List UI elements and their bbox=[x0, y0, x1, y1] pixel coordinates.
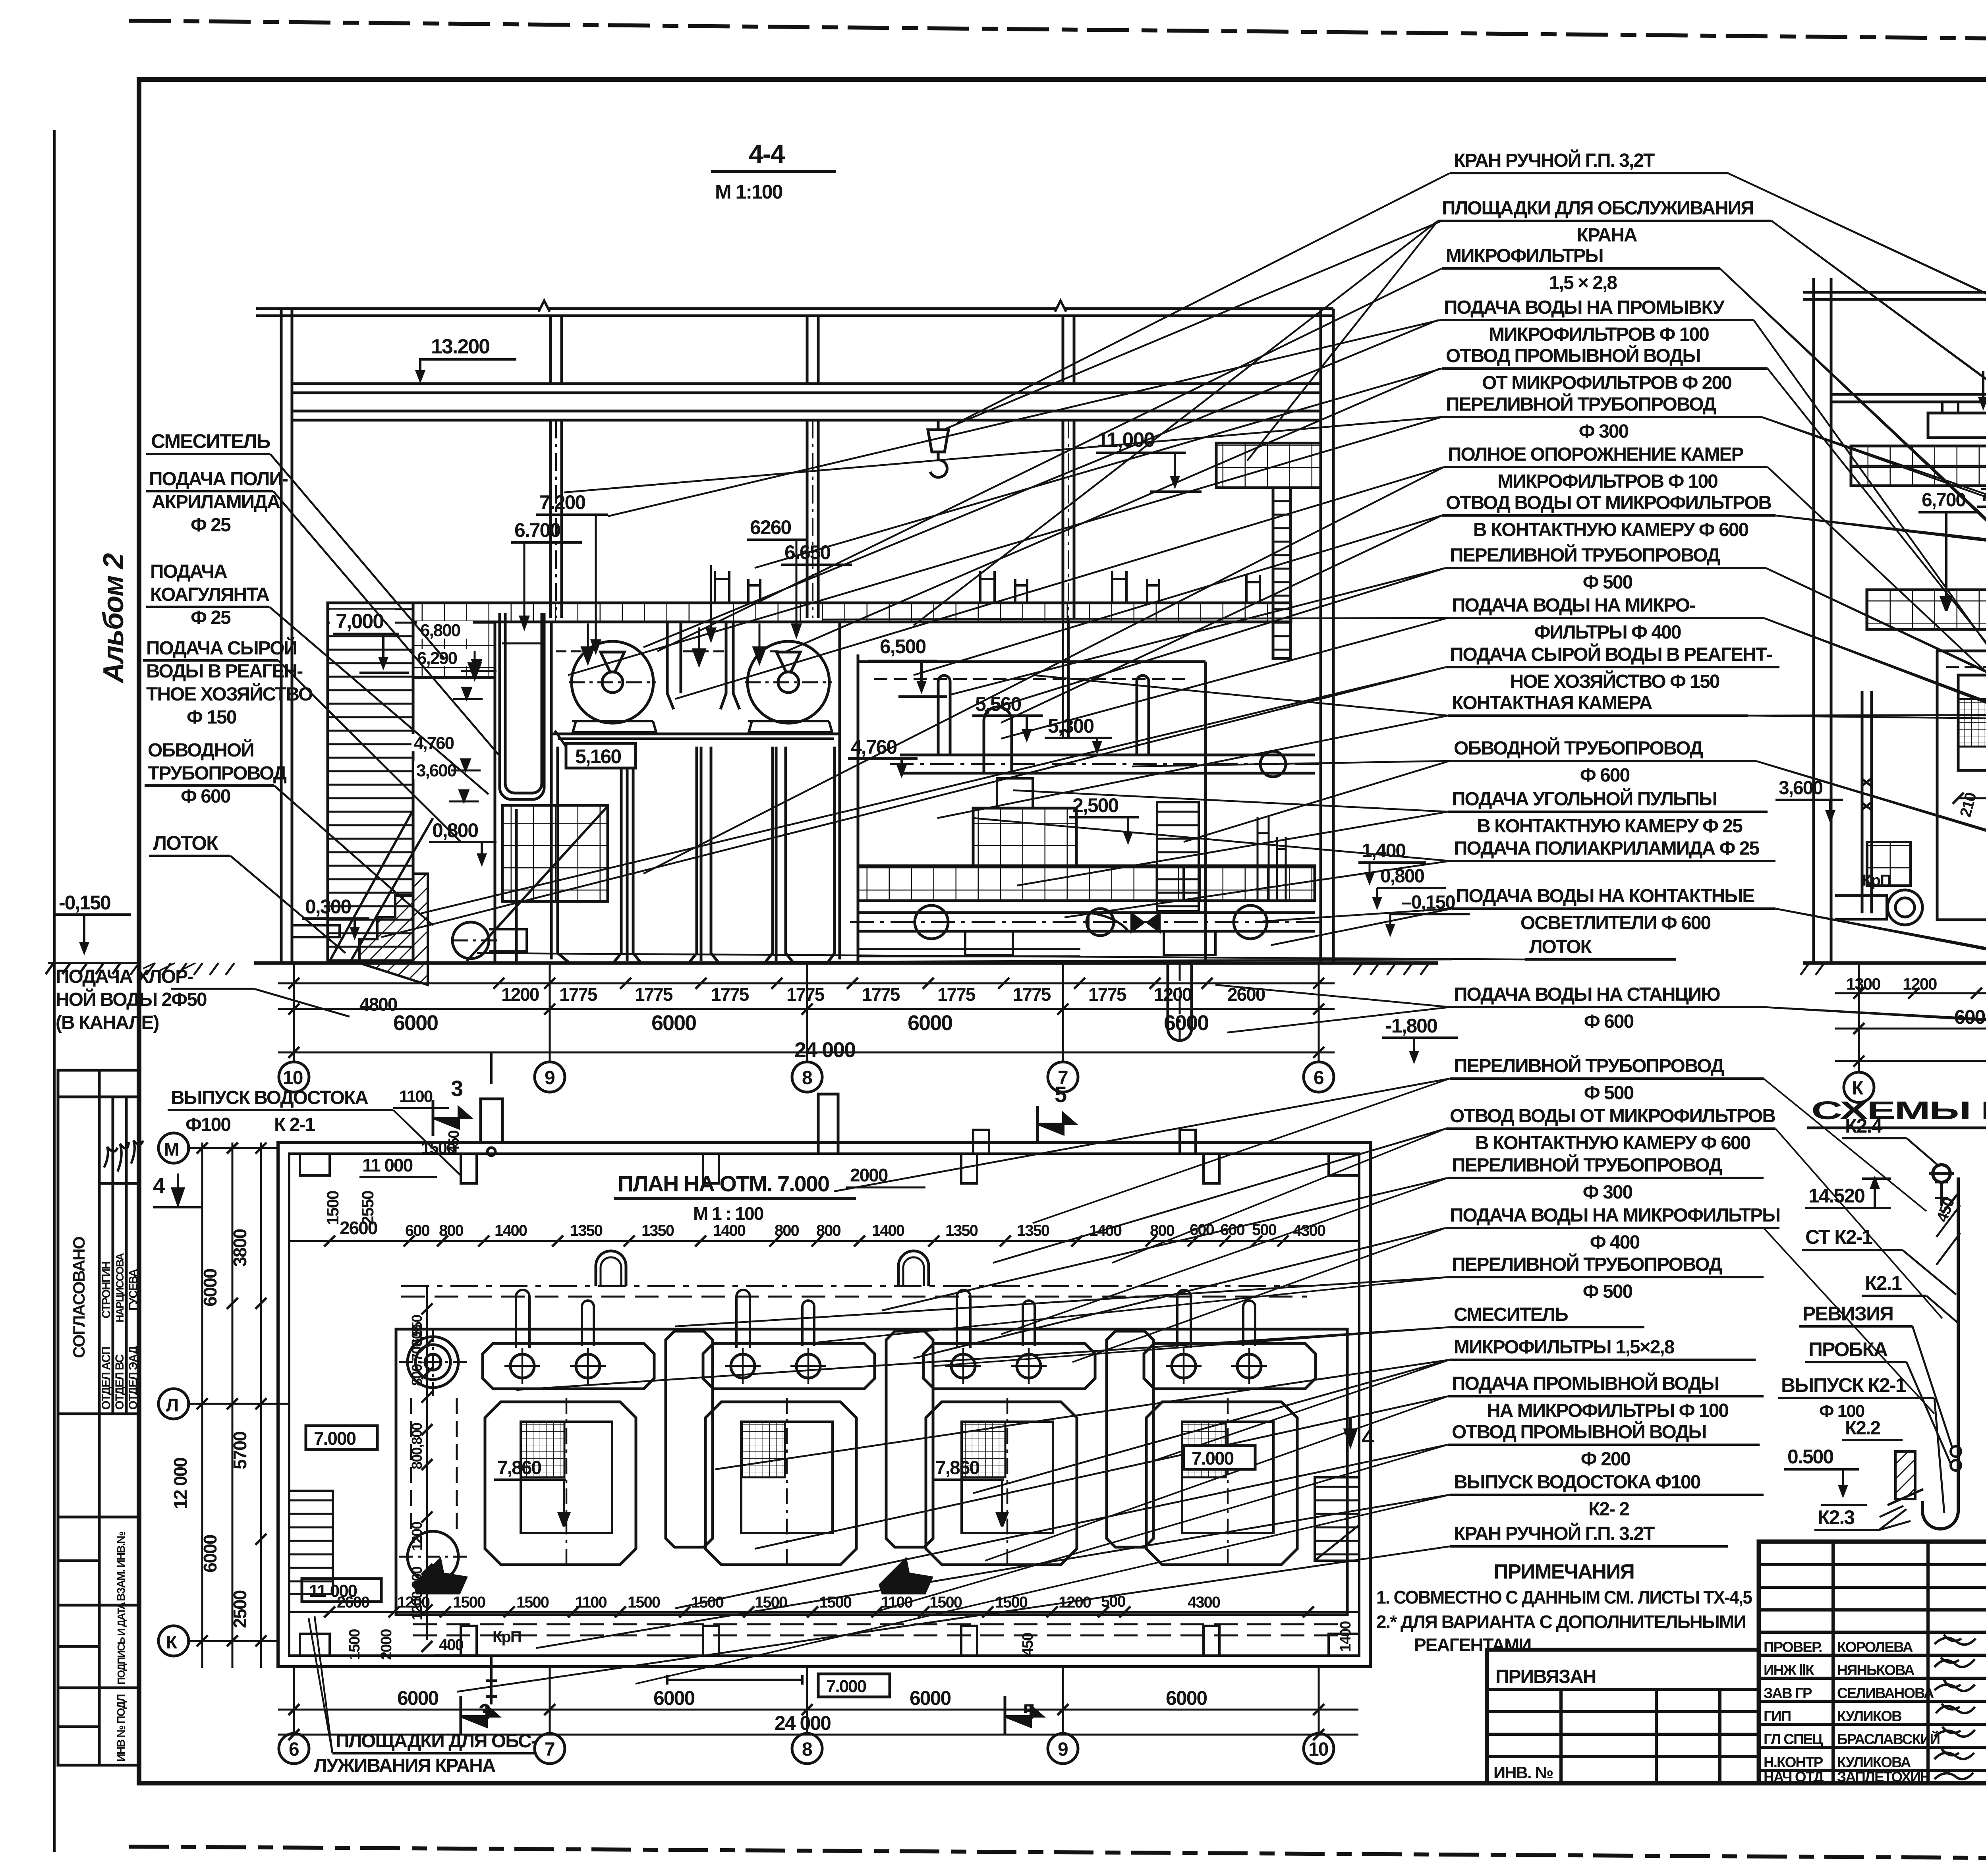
svg-text:ПОДАЧА ВОДЫ НА ПРОМЫВКУ: ПОДАЧА ВОДЫ НА ПРОМЫВКУ bbox=[1444, 297, 1725, 318]
svg-text:ОТДЕЛ АСП: ОТДЕЛ АСП bbox=[100, 1347, 113, 1410]
svg-text:13.200: 13.200 bbox=[431, 335, 489, 358]
svg-text:МИКРОФИЛЬТРОВ Ф 100: МИКРОФИЛЬТРОВ Ф 100 bbox=[1497, 471, 1717, 492]
narrow chamber cell between bays bbox=[1107, 1331, 1153, 1547]
small crane rail mark bottom center bbox=[667, 1675, 802, 1685]
svg-text:КОАГУЛЯНТА: КОАГУЛЯНТА bbox=[150, 584, 269, 605]
svg-text:Ф 25: Ф 25 bbox=[191, 515, 231, 536]
svg-text:КРАН РУЧНОЙ Г.П. 3,2Т: КРАН РУЧНОЙ Г.П. 3,2Т bbox=[1454, 149, 1655, 171]
foundation pit right bbox=[1168, 963, 1192, 1040]
svg-text:ЛУЖИВАНИЯ КРАНА: ЛУЖИВАНИЯ КРАНА bbox=[314, 1755, 496, 1776]
svg-text:7.200: 7.200 bbox=[539, 491, 585, 513]
microfilter drum 1 bbox=[572, 641, 653, 723]
privyazan table bbox=[1487, 1650, 1759, 1783]
svg-text:ПЛАН НА ОТМ. 7.000: ПЛАН НА ОТМ. 7.000 bbox=[618, 1171, 829, 1196]
svg-text:4300: 4300 bbox=[1188, 1594, 1220, 1611]
svg-text:НАРЦИССОВА: НАРЦИССОВА bbox=[114, 1253, 126, 1322]
microfilter bay 2 pipe stubs bbox=[736, 1290, 814, 1348]
svg-text:ВОДЫ В РЕАГЕН-: ВОДЫ В РЕАГЕН- bbox=[146, 661, 303, 682]
svg-text:ОТВОД ПРОМЫВНОЙ ВОДЫ: ОТВОД ПРОМЫВНОЙ ВОДЫ bbox=[1446, 345, 1700, 367]
left small pump platform bbox=[502, 805, 608, 901]
svg-text:7,860: 7,860 bbox=[497, 1457, 541, 1478]
svg-text:1775: 1775 bbox=[1013, 984, 1051, 1005]
microfilter bay 2 top cell bbox=[703, 1343, 875, 1389]
callout: ПЛОЩАДКИ ДЛЯ ОБСЛУЖИВАНИ bbox=[914, 198, 1986, 625]
svg-text:1775: 1775 bbox=[635, 984, 673, 1005]
svg-text:1. СОВМЕСТНО С ДАННЫМ СМ. ЛИ: 1. СОВМЕСТНО С ДАННЫМ СМ. ЛИСТЫ ТХ-4,5 bbox=[1376, 1587, 1752, 1608]
svg-text:2600: 2600 bbox=[340, 1218, 377, 1238]
svg-text:800: 800 bbox=[1150, 1222, 1174, 1239]
flow arrows into microfilter chambers bbox=[469, 623, 765, 679]
svg-text:1200: 1200 bbox=[1903, 975, 1937, 993]
svg-text:7.000: 7.000 bbox=[314, 1428, 356, 1449]
svg-text:10: 10 bbox=[283, 1067, 303, 1089]
crane runway beam upper bbox=[292, 382, 1321, 385]
svg-text:ФИЛЬТРЫ Ф 400: ФИЛЬТРЫ Ф 400 bbox=[1534, 622, 1681, 643]
plan bottom interior dim chain bbox=[290, 1611, 1358, 1613]
svg-text:1500: 1500 bbox=[755, 1594, 787, 1611]
svg-text:800: 800 bbox=[775, 1222, 799, 1239]
pipe joint bowtie bbox=[1130, 911, 1161, 934]
svg-text:НОЙ ВОДЫ 2Ф50: НОЙ ВОДЫ 2Ф50 bbox=[56, 988, 207, 1010]
tall filter tank cells bbox=[558, 747, 621, 963]
svg-text:9: 9 bbox=[1058, 1739, 1068, 1760]
right wall bbox=[1319, 309, 1322, 963]
callout: КРАН РУЧНОЙ Г.П. 3,2Т bbox=[957, 149, 1986, 431]
hatched pier column right of contact chamber bbox=[1157, 802, 1199, 911]
interior column 9 bbox=[549, 420, 552, 618]
mixer tank left bbox=[500, 613, 544, 799]
svg-text:500: 500 bbox=[1252, 1221, 1276, 1239]
svg-text:800: 800 bbox=[816, 1222, 840, 1239]
svg-text:6000: 6000 bbox=[653, 1687, 694, 1709]
callout: ПОДАЧА УГОЛЬНОЙ ПУЛЬПЫ bbox=[1013, 788, 1768, 837]
svg-text:1500: 1500 bbox=[929, 1594, 962, 1611]
callout: ПЕРЕЛИВНОЙ ТРУБОПРОВОД bbox=[675, 1253, 1764, 1326]
microfilter bay 3 tank cell bbox=[926, 1398, 1077, 1565]
callout: ПОДАЧА ВОДЫ НА МИКРОФИЛЬТР bbox=[914, 1205, 1780, 1358]
plan bottom dim row 6000s bbox=[278, 1709, 1358, 1711]
svg-text:КРАН РУЧНОЙ Г.П. 3.2Т: КРАН РУЧНОЙ Г.П. 3.2Т bbox=[1454, 1523, 1655, 1544]
svg-text:5: 5 bbox=[1055, 1082, 1066, 1107]
svg-text:ЛОТОК: ЛОТОК bbox=[153, 832, 218, 854]
svg-text:1500: 1500 bbox=[691, 1594, 724, 1611]
svg-text:ПРОБКА: ПРОБКА bbox=[1808, 1338, 1887, 1361]
microfilter bay 1 top cell bbox=[483, 1343, 654, 1389]
5-5 crane runway beams bbox=[1831, 393, 1986, 396]
svg-text:ОТВОД ВОДЫ ОТ МИКРОФИЛЬТРОВ: ОТВОД ВОДЫ ОТ МИКРОФИЛЬТРОВ bbox=[1446, 492, 1771, 513]
main horizontal pipe bbox=[900, 754, 1315, 757]
svg-text:Ф 200: Ф 200 bbox=[1581, 1449, 1631, 1470]
left stair tower bbox=[328, 603, 413, 963]
svg-text:1775: 1775 bbox=[937, 984, 976, 1005]
svg-text:1500: 1500 bbox=[995, 1594, 1028, 1611]
wall platform grid block top right bbox=[1216, 443, 1321, 488]
extra leader fan lines lower central bbox=[636, 1079, 1942, 1684]
svg-text:К 2-1: К 2-1 bbox=[274, 1114, 315, 1135]
5-5 left pipe column with valves bbox=[1861, 691, 1864, 913]
svg-text:400: 400 bbox=[439, 1636, 463, 1654]
svg-text:1350: 1350 bbox=[641, 1222, 674, 1239]
plan left rotated dims bbox=[170, 1229, 250, 1628]
left pump bbox=[452, 922, 489, 959]
svg-text:ВЫПУСК К2-1: ВЫПУСК К2-1 bbox=[1781, 1374, 1906, 1396]
upper grid platform left bbox=[413, 622, 495, 677]
svg-text:6000: 6000 bbox=[397, 1687, 438, 1709]
svg-text:ОСВЕТЛИТЕЛИ Ф 600: ОСВЕТЛИТЕЛИ Ф 600 bbox=[1520, 913, 1711, 934]
svg-text:2.* ДЛЯ ВАРИАНТА С ДОПОЛНИТ: 2.* ДЛЯ ВАРИАНТА С ДОПОЛНИТЕЛЬНЫМИ bbox=[1376, 1612, 1746, 1632]
callout: ПОДАЧА ПОЛИАКРИЛАМИДА Ф 2 bbox=[973, 818, 1775, 861]
microfilter bay 4 pipe stubs bbox=[1177, 1290, 1255, 1348]
dim row 1 bbox=[278, 982, 1335, 984]
crew rows labels bbox=[1764, 1639, 1940, 1785]
svg-text:К2.1: К2.1 bbox=[1865, 1272, 1902, 1294]
svg-text:6000: 6000 bbox=[1954, 1006, 1986, 1028]
svg-text:Ф 500: Ф 500 bbox=[1583, 572, 1632, 593]
boxed 5.160 bbox=[566, 743, 636, 768]
dashed pipe run along top of bays bbox=[401, 1296, 1307, 1298]
svg-text:ОБВОДНОЙ: ОБВОДНОЙ bbox=[148, 739, 254, 761]
vent top bbox=[1933, 1165, 1950, 1182]
svg-text:1775: 1775 bbox=[786, 984, 825, 1005]
svg-text:Ф 25: Ф 25 bbox=[191, 607, 231, 628]
plan grid line L bbox=[187, 1403, 290, 1405]
svg-text:8: 8 bbox=[802, 1067, 812, 1089]
svg-text:ПРИВЯЗАН: ПРИВЯЗАН bbox=[1495, 1666, 1596, 1687]
black flag blob bay3 bbox=[879, 1557, 933, 1594]
svg-text:Ф 300: Ф 300 bbox=[1583, 1182, 1632, 1203]
svg-text:ПОДАЧА УГОЛЬНОЙ ПУЛЬПЫ: ПОДАЧА УГОЛЬНОЙ ПУЛЬПЫ bbox=[1452, 788, 1717, 810]
5-5 dim row 1 bbox=[1835, 992, 1986, 994]
callout: ПОДАЧА ВОДЫ НА МИКРО- bbox=[822, 595, 1986, 731]
svg-text:ИНВ. №: ИНВ. № bbox=[1493, 1763, 1553, 1782]
svg-text:ТРУБОПРОВОД: ТРУБОПРОВОД bbox=[148, 763, 287, 784]
svg-text:СТРОНГИН: СТРОНГИН bbox=[100, 1262, 113, 1318]
svg-text:4800: 4800 bbox=[359, 994, 397, 1015]
svg-text:7.700: 7.700 bbox=[1980, 484, 1986, 506]
svg-text:КУЛИКОВ: КУЛИКОВ bbox=[1837, 1708, 1902, 1724]
callout: ЛОТОК bbox=[477, 936, 1676, 959]
svg-text:6000: 6000 bbox=[200, 1269, 220, 1307]
ground hatch left bbox=[130, 963, 234, 975]
svg-text:6,700: 6,700 bbox=[1922, 490, 1965, 511]
svg-text:ИНВ № ПОДЛ: ИНВ № ПОДЛ bbox=[115, 1695, 127, 1762]
riser 1: vertical stack bbox=[1922, 1165, 1958, 1529]
plan left dim verticals bbox=[201, 1143, 203, 1668]
svg-text:ПОДПИСЬ И ДАТА: ПОДПИСЬ И ДАТА bbox=[115, 1602, 127, 1685]
svg-text:5700: 5700 bbox=[230, 1432, 250, 1469]
callout: ПЕРЕЛИВНОЙ ТРУБОПРОВОД bbox=[882, 1154, 1764, 1310]
5-5 walkway platform band bbox=[1851, 446, 1986, 486]
plan bottom column bubbles 6 7 8 9 10 bbox=[279, 1668, 1334, 1764]
svg-text:600: 600 bbox=[1220, 1221, 1244, 1239]
callout: ПОДАЧА ПРОМЫВНОЙ ВОДЫ bbox=[755, 1372, 1764, 1549]
hatched wall ladder right bbox=[1273, 488, 1291, 658]
narrow chamber cell between bays bbox=[886, 1331, 933, 1547]
svg-text:4: 4 bbox=[1362, 1425, 1374, 1450]
svg-text:Ф100: Ф100 bbox=[185, 1114, 230, 1135]
svg-text:1775: 1775 bbox=[862, 984, 900, 1005]
svg-text:ВЫПУСК ВОДОСТОКА: ВЫПУСК ВОДОСТОКА bbox=[171, 1087, 368, 1108]
callout: ПЕРЕЛИВНОЙ ТРУБОПРОВОД bbox=[949, 544, 1986, 786]
microfilter bay 2 tank cell bbox=[705, 1398, 856, 1565]
microfilter drum 2 bbox=[748, 641, 829, 723]
svg-text:1775: 1775 bbox=[559, 984, 597, 1005]
svg-text:7: 7 bbox=[545, 1739, 554, 1760]
plan inner vertical dim chain bbox=[426, 1287, 428, 1640]
page top trim dashed line bbox=[131, 21, 1986, 44]
callout: ОТВОД ПРОМЫВНОЙ ВОДЫ bbox=[755, 345, 1768, 568]
microfilter bay 1 pipe stubs bbox=[516, 1290, 594, 1348]
svg-text:ВЫПУСК ВОДОСТОКА Ф100: ВЫПУСК ВОДОСТОКА Ф100 bbox=[1454, 1472, 1700, 1493]
5-5 left pump circle bbox=[1887, 890, 1922, 925]
left wall bbox=[280, 309, 283, 963]
svg-text:1775: 1775 bbox=[1088, 984, 1126, 1005]
svg-text:14.520: 14.520 bbox=[1808, 1185, 1864, 1207]
page left trim line bbox=[53, 131, 56, 1851]
5-5 left small grid block bbox=[1867, 842, 1911, 886]
svg-text:ПОДАЧА ХЛОР-: ПОДАЧА ХЛОР- bbox=[56, 966, 193, 987]
svg-text:1350: 1350 bbox=[945, 1222, 978, 1239]
callout: ПЕРЕЛИВНОЙ ТРУБОПРОВОД bbox=[564, 393, 1986, 604]
svg-text:6: 6 bbox=[1314, 1067, 1323, 1089]
svg-text:7,860: 7,860 bbox=[935, 1457, 979, 1478]
narrow chamber cell between bays bbox=[666, 1331, 713, 1547]
callout: ОТВОД ВОДЫ ОТ МИКРОФИЛЬТРО bbox=[993, 1106, 1775, 1263]
standpipe 3 bbox=[1137, 676, 1149, 755]
svg-text:ВЗАМ. ИНВ.№: ВЗАМ. ИНВ.№ bbox=[115, 1532, 127, 1601]
dim row 3 bbox=[278, 1052, 1335, 1054]
svg-text:Н.КОНТР: Н.КОНТР bbox=[1764, 1754, 1823, 1770]
svg-text:СМЕСИТЕЛЬ: СМЕСИТЕЛЬ bbox=[151, 430, 270, 452]
callout: ПОДАЧА ВОДЫ НА ПРОМЫВКУ bbox=[608, 297, 1754, 516]
svg-text:ЛОТОК: ЛОТОК bbox=[1529, 936, 1592, 957]
svg-text:4,760: 4,760 bbox=[851, 736, 896, 758]
svg-text:1100: 1100 bbox=[881, 1594, 913, 1611]
svg-text:ПОДАЧА ПОЛИАКРИЛАМИДА Ф 25: ПОДАЧА ПОЛИАКРИЛАМИДА Ф 25 bbox=[1454, 838, 1759, 859]
svg-text:1200: 1200 bbox=[1059, 1594, 1091, 1611]
plan pipe loop 1 bbox=[596, 1251, 626, 1286]
5-5 ground line bbox=[1803, 961, 1986, 965]
svg-text:ПОДАЧА ВОДЫ НА МИКРО-: ПОДАЧА ВОДЫ НА МИКРО- bbox=[1452, 595, 1695, 616]
svg-text:НЯНЬКОВА: НЯНЬКОВА bbox=[1837, 1662, 1915, 1678]
svg-text:3,600: 3,600 bbox=[1779, 778, 1822, 799]
5-5 mid platform band bbox=[1867, 590, 1986, 629]
callout: ОТВОД ПРОМЫВНОЙ ВОДЫ bbox=[675, 1421, 1760, 1608]
svg-text:КРАНА: КРАНА bbox=[1576, 225, 1637, 246]
svg-text:1400: 1400 bbox=[713, 1222, 746, 1239]
contact chamber tank bbox=[857, 654, 860, 963]
svg-text:Ф 600: Ф 600 bbox=[181, 786, 230, 807]
callout: ВЫПУСК ВОДОСТОКА Ф100 bbox=[536, 1472, 1764, 1648]
svg-text:Альбом 2: Альбом 2 bbox=[98, 553, 129, 684]
svg-text:В КОНТАКТНУЮ КАМЕРУ Ф 600: В КОНТАКТНУЮ КАМЕРУ Ф 600 bbox=[1473, 519, 1748, 540]
lower walkway band right bbox=[858, 866, 1315, 901]
plan stairs right side bbox=[1315, 1477, 1359, 1561]
svg-text:0,800: 0,800 bbox=[1380, 866, 1424, 887]
interior column 8 bbox=[806, 420, 809, 618]
svg-text:3,600: 3,600 bbox=[416, 761, 456, 780]
svg-text:6260: 6260 bbox=[750, 516, 791, 538]
svg-text:К2- 2: К2- 2 bbox=[1588, 1499, 1629, 1520]
dim numbers row2 6000s bbox=[393, 1011, 1208, 1035]
svg-text:500: 500 bbox=[1101, 1593, 1125, 1610]
callout: ОТВОД ВОДЫ ОТ МИКРОФИЛЬ bbox=[1001, 492, 1986, 723]
svg-text:ЗАВ ГР: ЗАВ ГР bbox=[1764, 1685, 1812, 1701]
4-4 pipe stubs above tanks bbox=[715, 571, 1260, 603]
svg-text:НАЧ ОТД: НАЧ ОТД bbox=[1764, 1769, 1824, 1785]
svg-text:0,300: 0,300 bbox=[305, 896, 351, 918]
wall sleeve hatch bbox=[1880, 1451, 1923, 1517]
svg-text:1,400: 1,400 bbox=[1362, 840, 1405, 861]
svg-text:6000: 6000 bbox=[393, 1011, 438, 1035]
dim numbers row1 bbox=[359, 984, 1265, 1015]
svg-text:1400: 1400 bbox=[1089, 1222, 1122, 1239]
svg-text:ЗАПЛЕТОХИН: ЗАПЛЕТОХИН bbox=[1837, 1769, 1930, 1785]
svg-text:(В КАНАЛЕ): (В КАНАЛЕ) bbox=[56, 1012, 159, 1033]
svg-text:1200: 1200 bbox=[397, 1594, 430, 1611]
4-4 small elevation labels inside bbox=[411, 621, 473, 780]
svg-text:КОНТАКТНАЯ КАМЕРА: КОНТАКТНАЯ КАМЕРА bbox=[1452, 693, 1652, 714]
dim row 2 bbox=[278, 1008, 1335, 1010]
svg-text:М 1 : 100: М 1 : 100 bbox=[693, 1203, 763, 1224]
riser pipe bbox=[1922, 1177, 1958, 1529]
svg-text:КУЛИКОВА: КУЛИКОВА bbox=[1837, 1754, 1911, 1770]
svg-text:1200: 1200 bbox=[501, 984, 539, 1005]
svg-text:800,800: 800,800 bbox=[409, 1423, 425, 1469]
revision fitting circles bbox=[1951, 1446, 1961, 1457]
svg-text:600: 600 bbox=[1190, 1221, 1214, 1239]
5-5 column bubbles K L M bbox=[1844, 963, 1986, 1102]
page bottom trim dashed line bbox=[131, 1847, 1986, 1862]
svg-text:7.000: 7.000 bbox=[1192, 1448, 1234, 1469]
svg-text:М: М bbox=[164, 1139, 178, 1160]
svg-text:6000: 6000 bbox=[1164, 1011, 1208, 1035]
plan boxed 7.000 bottom center bbox=[818, 1674, 890, 1697]
svg-text:9: 9 bbox=[545, 1067, 554, 1089]
svg-text:Ф 400: Ф 400 bbox=[1590, 1232, 1640, 1253]
svg-text:В КОНТАКТНУЮ КАМЕРУ Ф 600: В КОНТАКТНУЮ КАМЕРУ Ф 600 bbox=[1475, 1133, 1750, 1154]
svg-text:-1,800: -1,800 bbox=[1385, 1015, 1437, 1037]
svg-text:1500: 1500 bbox=[516, 1594, 549, 1611]
svg-text:АКРИЛАМИДА: АКРИЛАМИДА bbox=[152, 492, 280, 513]
svg-text:К2.4: К2.4 bbox=[1845, 1115, 1882, 1137]
plan boxed 7.000 right bbox=[1184, 1446, 1255, 1469]
ground hatch right bbox=[1354, 963, 1429, 975]
svg-text:7,000: 7,000 bbox=[336, 610, 383, 633]
svg-text:Ф 500: Ф 500 bbox=[1584, 1083, 1634, 1104]
svg-text:24 000: 24 000 bbox=[794, 1038, 855, 1062]
svg-text:ОТДЕЛ ВС: ОТДЕЛ ВС bbox=[113, 1355, 126, 1410]
svg-text:1500: 1500 bbox=[323, 1191, 342, 1225]
svg-text:1200: 1200 bbox=[1154, 984, 1192, 1005]
callout: МИКРОФИЛЬТРЫ 1,5×2,8 bbox=[715, 1337, 1756, 1493]
svg-text:ОТ МИКРОФИЛЬТРОВ Ф 200: ОТ МИКРОФИЛЬТРОВ Ф 200 bbox=[1482, 372, 1731, 394]
svg-text:1100: 1100 bbox=[575, 1594, 607, 1611]
standpipe 1 bbox=[938, 676, 950, 755]
callout: ПОДАЧА ВОДЫ НА СТАНЦИЮ bbox=[1215, 984, 1986, 1040]
svg-text:Ф 150: Ф 150 bbox=[187, 707, 236, 728]
svg-text:450: 450 bbox=[1020, 1633, 1036, 1656]
black flag blob bay1 bbox=[413, 1557, 468, 1594]
stamp table outline bbox=[58, 1070, 140, 1765]
big flanged pipe top-left in plan bbox=[399, 1328, 467, 1582]
svg-text:ПЕРЕЛИВНОЙ ТРУБОПРОВОД: ПЕРЕЛИВНОЙ ТРУБОПРОВОД bbox=[1446, 393, 1716, 415]
5-5 main tank bbox=[1937, 651, 1986, 920]
svg-text:МИКРОФИЛЬТРЫ 1,5×2,8: МИКРОФИЛЬТРЫ 1,5×2,8 bbox=[1454, 1337, 1675, 1358]
plan interior equipment zone bbox=[396, 1286, 1347, 1635]
microfilter bay 1 tank cell bbox=[485, 1398, 636, 1565]
roof break marks bbox=[539, 301, 550, 312]
microfilter chamber walls bbox=[550, 622, 553, 959]
svg-text:1100: 1100 bbox=[399, 1087, 433, 1106]
svg-text:5,160: 5,160 bbox=[575, 745, 621, 768]
svg-text:800: 800 bbox=[439, 1222, 463, 1239]
svg-text:1500: 1500 bbox=[421, 1139, 455, 1157]
drain outlet pipe top bbox=[481, 1052, 502, 1156]
svg-text:2000: 2000 bbox=[850, 1165, 888, 1185]
svg-text:6000: 6000 bbox=[651, 1011, 696, 1035]
5-5 crane bridge bbox=[1928, 413, 1986, 438]
svg-text:М 1:100: М 1:100 bbox=[715, 181, 782, 203]
svg-text:КрП: КрП bbox=[1862, 872, 1891, 889]
interior column 7 bbox=[1062, 420, 1064, 618]
svg-text:ОТДЕЛ ЭАД: ОТДЕЛ ЭАД bbox=[127, 1346, 140, 1410]
svg-text:К: К bbox=[166, 1632, 178, 1652]
svg-text:6000: 6000 bbox=[908, 1011, 952, 1035]
low floor pipes 4-4 bbox=[858, 948, 1080, 950]
svg-text:ИНЖ ⅡК: ИНЖ ⅡК bbox=[1764, 1662, 1814, 1678]
svg-text:СХЕМЫ ВОДОСТОКОВ (К2): СХЕМЫ ВОДОСТОКОВ (К2) bbox=[1811, 1096, 1986, 1125]
svg-text:-0,150: -0,150 bbox=[59, 892, 110, 914]
standpipe 2 (big riser) bbox=[984, 707, 1012, 774]
svg-text:2000: 2000 bbox=[378, 1629, 395, 1660]
svg-text:6000: 6000 bbox=[1166, 1687, 1207, 1709]
microfilter bay 3 pipe stubs bbox=[957, 1290, 1035, 1348]
svg-text:ПРОВЕР.: ПРОВЕР. bbox=[1764, 1639, 1822, 1655]
svg-text:ПЛОЩАДКИ ДЛЯ ОБСЛУЖИВАНИЯ: ПЛОЩАДКИ ДЛЯ ОБСЛУЖИВАНИЯ bbox=[1442, 198, 1754, 219]
svg-text:ПОДАЧА ВОДЫ НА КОНТАКТНЫЕ: ПОДАЧА ВОДЫ НА КОНТАКТНЫЕ bbox=[1456, 886, 1754, 907]
svg-text:12 000: 12 000 bbox=[170, 1458, 191, 1509]
svg-text:РЕВИЗИЯ: РЕВИЗИЯ bbox=[1802, 1303, 1893, 1325]
svg-text:2600: 2600 bbox=[337, 1594, 369, 1611]
svg-text:1200: 1200 bbox=[409, 1522, 425, 1551]
crane girder lower bbox=[292, 410, 1321, 413]
plan column bubbles M L K bbox=[158, 1133, 189, 1656]
hall inner wall left bbox=[494, 622, 496, 963]
svg-text:ПЕРЕЛИВНОЙ ТРУБОПРОВОД: ПЕРЕЛИВНОЙ ТРУБОПРОВОД bbox=[1454, 1055, 1724, 1077]
svg-text:6000: 6000 bbox=[200, 1535, 220, 1573]
svg-text:1350: 1350 bbox=[570, 1222, 603, 1239]
svg-text:ПЛОЩАДКИ ДЛЯ ОБС-: ПЛОЩАДКИ ДЛЯ ОБС- bbox=[336, 1731, 537, 1752]
svg-text:Л: Л bbox=[166, 1395, 178, 1415]
svg-text:1,5 × 2,8: 1,5 × 2,8 bbox=[1549, 272, 1617, 293]
callout: КРАН РУЧНОЙ Г.П. 3.2Т bbox=[457, 1523, 1728, 1692]
svg-text:4300: 4300 bbox=[1293, 1222, 1325, 1239]
svg-text:БРАСЛАВСКИЙ: БРАСЛАВСКИЙ bbox=[1837, 1731, 1940, 1747]
svg-text:800,700,550: 800,700,550 bbox=[409, 1315, 425, 1386]
plan wall pilasters top bbox=[300, 1154, 1359, 1656]
5-5 dim row 2 bbox=[1835, 1028, 1986, 1030]
svg-text:Ф 500: Ф 500 bbox=[1583, 1281, 1632, 1302]
service walkway band bbox=[413, 603, 1291, 622]
branch from vent bbox=[1942, 1193, 1958, 1213]
svg-text:2,500: 2,500 bbox=[1072, 794, 1118, 816]
svg-text:ПЕРЕЛИВНОЙ ТРУБОПРОВОД: ПЕРЕЛИВНОЙ ТРУБОПРОВОД bbox=[1452, 1154, 1722, 1176]
svg-text:РЕАГЕНТАМИ.: РЕАГЕНТАМИ. bbox=[1414, 1635, 1535, 1655]
svg-text:ПОЛНОЕ ОПОРОЖНЕНИЕ КАМЕР: ПОЛНОЕ ОПОРОЖНЕНИЕ КАМЕР bbox=[1448, 444, 1743, 465]
callout: ПЕРЕЛИВНОЙ ТРУБОПРОВОД bbox=[834, 1055, 1764, 1191]
left inner guide dashed lines bbox=[410, 1398, 412, 1533]
